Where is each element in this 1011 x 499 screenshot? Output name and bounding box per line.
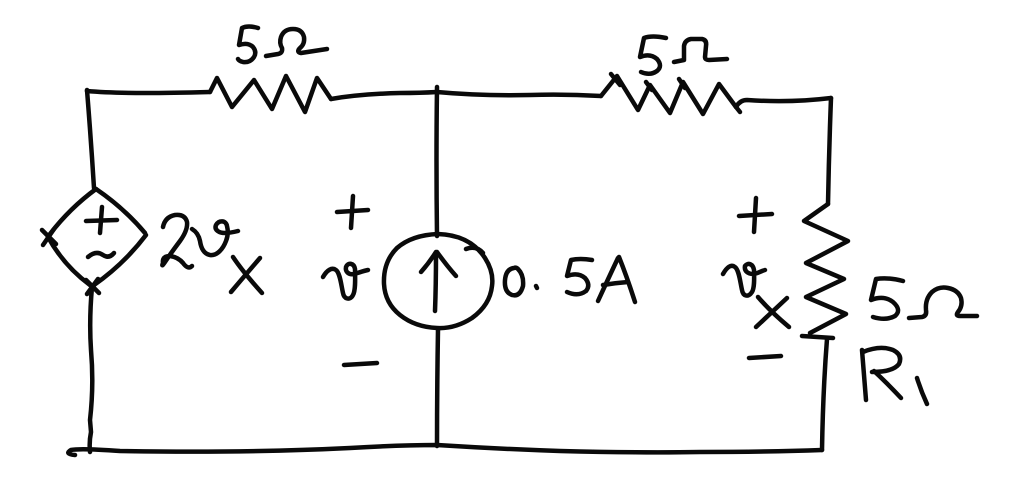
node middle-top junction — [434, 87, 439, 236]
resistor R_mid 5ohm (horizontal zigzag) — [601, 74, 740, 114]
dependent source 2vx (diamond) — [42, 189, 146, 294]
label 5ohm top-right — [640, 37, 727, 74]
resistor R_left 5ohm (horizontal zigzag) — [210, 76, 331, 112]
plus sign middle — [337, 196, 368, 228]
plus sign right — [739, 198, 772, 232]
wire right vertical upper — [828, 98, 831, 204]
wire middle vertical lower — [437, 329, 438, 446]
label 0.5A — [505, 257, 635, 302]
wire right vertical lower — [822, 339, 827, 450]
wire bottom — [68, 445, 822, 455]
wire top-right segment — [736, 98, 831, 107]
minus sign inside diamond — [88, 253, 114, 257]
label R1 — [862, 348, 927, 404]
label 5ohm top-left — [238, 27, 327, 63]
minus sign middle — [344, 363, 377, 365]
wire top-left segment — [87, 91, 210, 93]
label v middle — [323, 264, 368, 299]
label vx right — [723, 264, 789, 327]
wire left vertical upper — [87, 90, 94, 188]
label 5ohm right — [871, 278, 977, 318]
plus sign inside diamond — [86, 207, 117, 233]
wire left vertical lower — [90, 287, 93, 452]
minus sign right — [749, 356, 781, 358]
wire top-middle segment — [331, 92, 601, 99]
arrow inside current source — [421, 252, 456, 311]
resistor R1 5ohm (vertical zigzag) — [802, 204, 848, 338]
current source 0.5A (circle) — [384, 234, 492, 328]
label 2vx — [162, 215, 262, 293]
